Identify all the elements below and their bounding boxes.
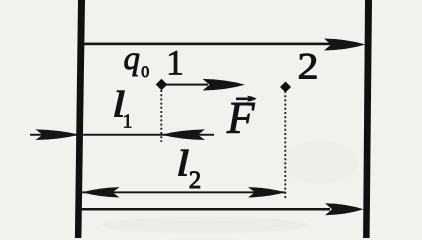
svg-text:2: 2 <box>189 167 202 194</box>
point 1 <box>156 79 168 91</box>
bottom field line arrow <box>80 203 364 215</box>
svg-text:0: 0 <box>141 64 149 81</box>
svg-text:q: q <box>124 41 141 77</box>
dashed line from point 1 <box>160 90 162 142</box>
svg-text:1: 1 <box>123 110 133 132</box>
left plate <box>75 0 85 238</box>
top field line arrow <box>84 39 366 51</box>
faint bleed-through smudge right-middle <box>282 140 358 184</box>
point 2 <box>280 81 291 92</box>
dashed line from point 2 <box>284 91 286 199</box>
svg-text:2: 2 <box>298 46 319 87</box>
right plate <box>363 0 372 238</box>
dimension l1 line with outside arrows <box>30 129 214 140</box>
svg-text:l: l <box>176 143 189 184</box>
faint bleed-through smudge bottom <box>100 217 310 233</box>
force F arrow <box>163 79 245 91</box>
dimension l2 double arrow <box>82 187 285 197</box>
svg-text:1: 1 <box>166 43 184 83</box>
label F vector <box>226 93 257 143</box>
